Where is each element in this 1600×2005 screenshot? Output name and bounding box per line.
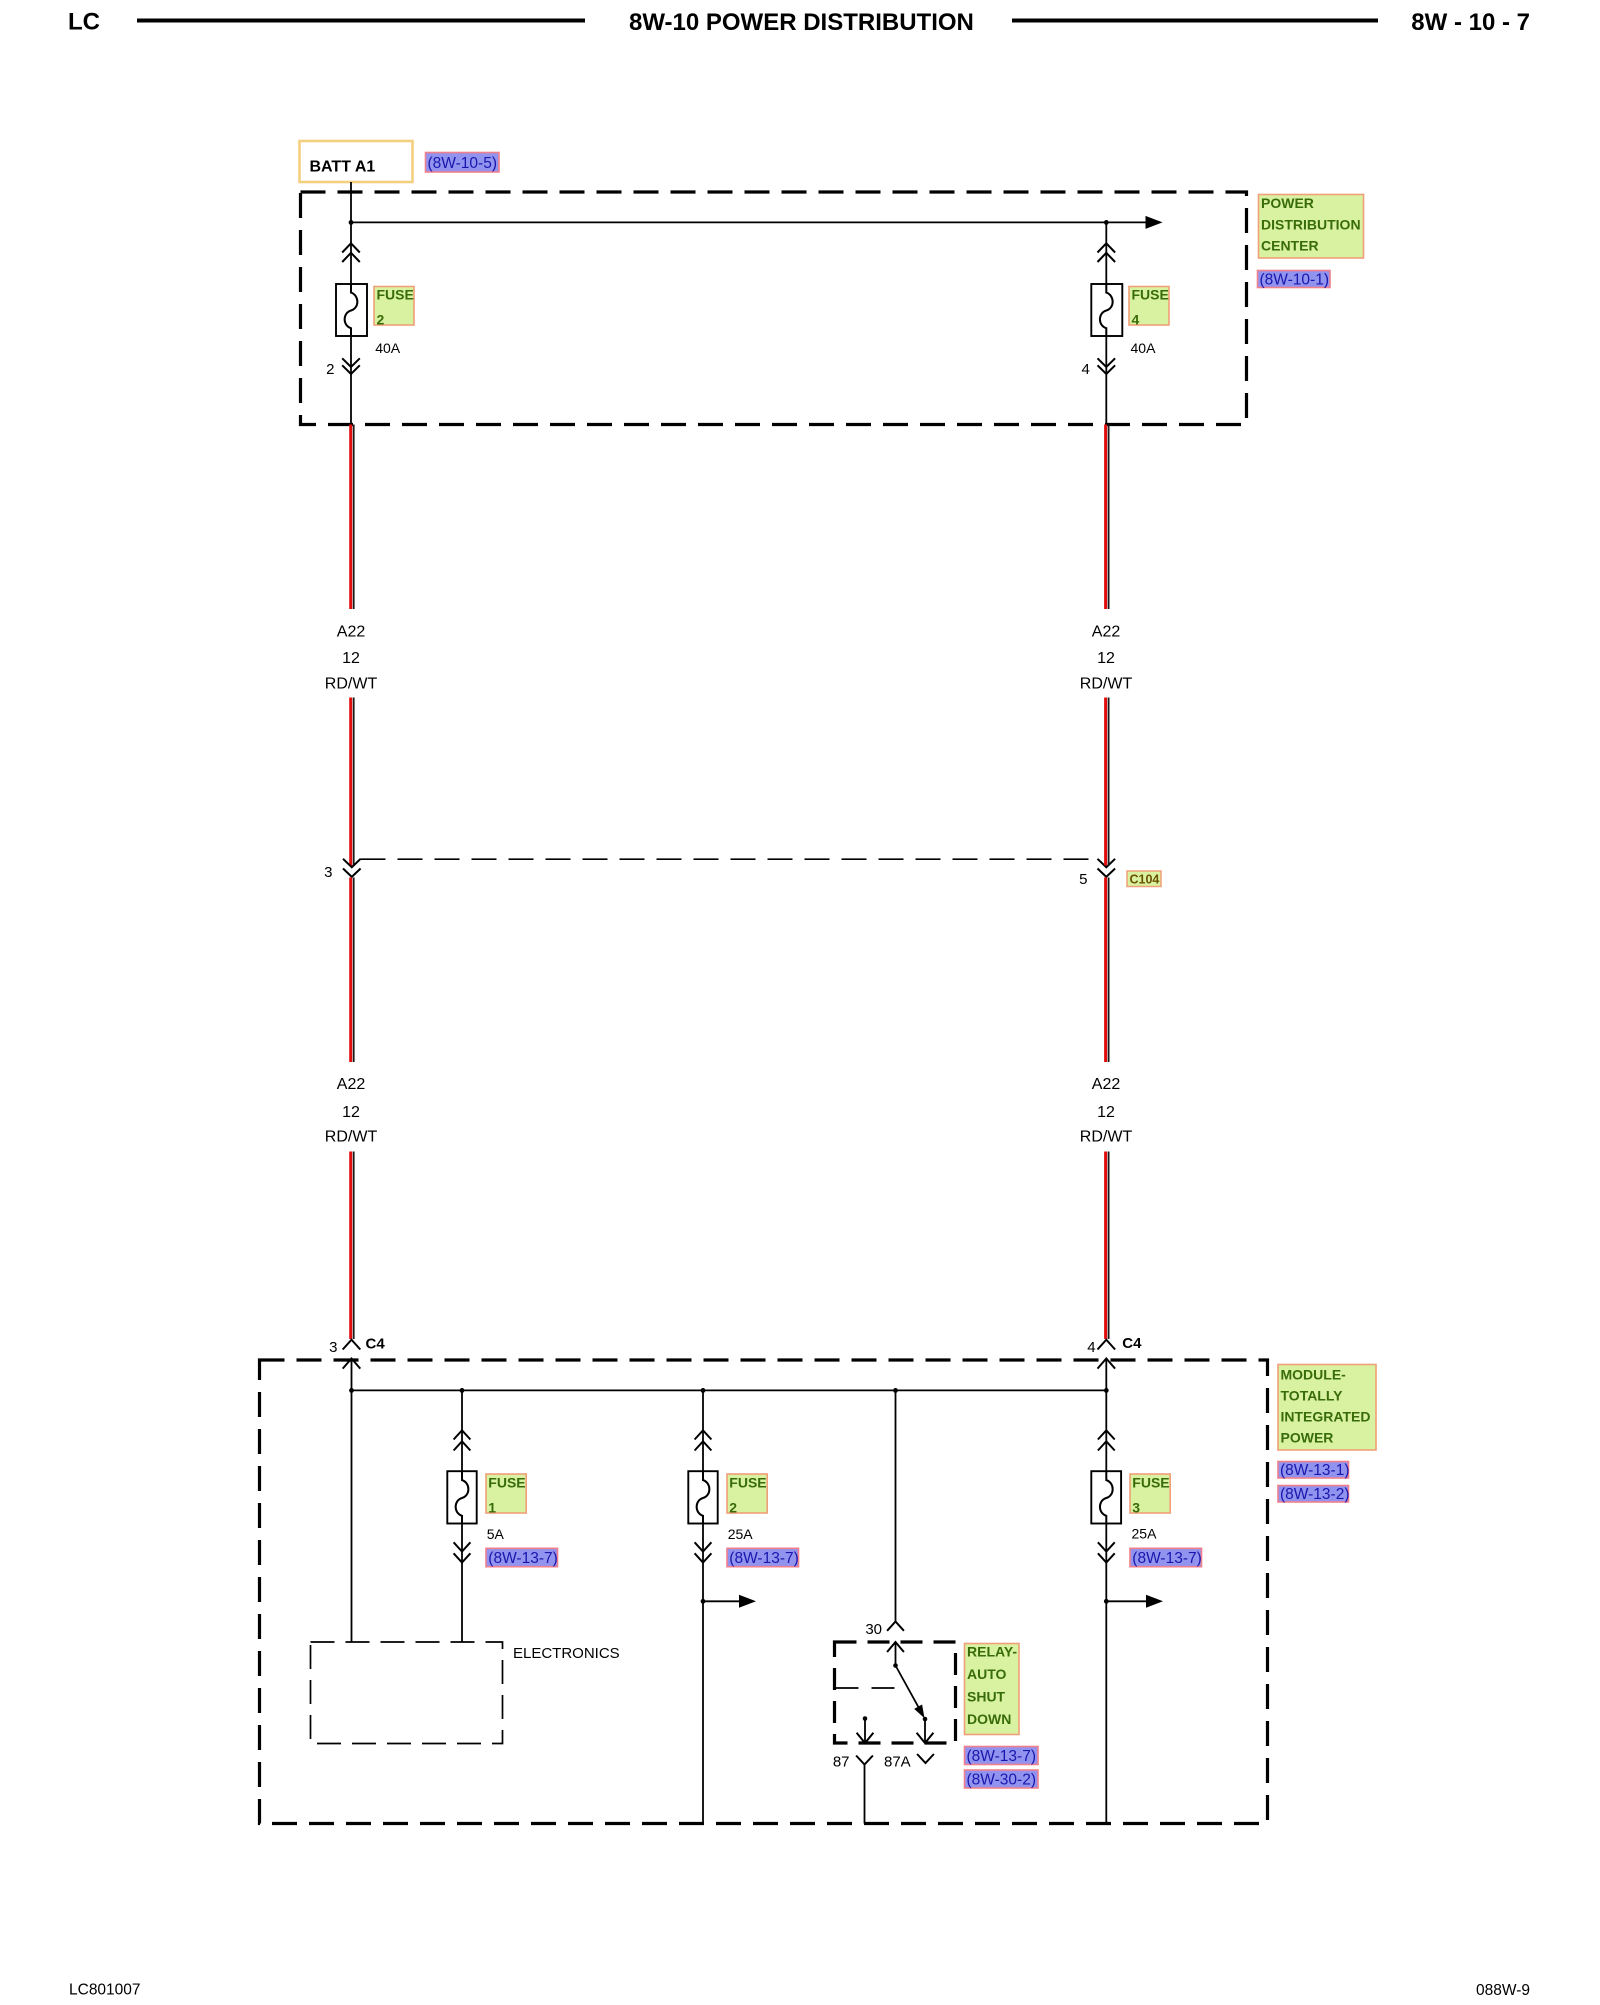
wire: horizontal bus in PDC going right <box>351 221 1146 223</box>
wire: right feed down through PDC <box>1105 222 1107 424</box>
svg-text:(8W-10-5): (8W-10-5) <box>428 155 497 172</box>
svg-text:CENTER: CENTER <box>1261 238 1319 254</box>
svg-text:LC: LC <box>68 9 100 36</box>
label FUSE 2 (TIPM) <box>727 1474 767 1516</box>
wire: 87A leg to box edge <box>924 1719 926 1743</box>
svg-text:A22: A22 <box>337 1076 366 1093</box>
wire label A22 12 RD/WT (left upper) <box>325 624 378 693</box>
wire label A22 12 RD/WT (right lower) <box>1080 1076 1133 1146</box>
svg-text:FUSE: FUSE <box>377 287 414 303</box>
svg-text:DISTRIBUTION: DISTRIBUTION <box>1261 216 1361 232</box>
svg-text:(8W-13-7): (8W-13-7) <box>1132 1550 1201 1567</box>
svg-text:RELAY-: RELAY- <box>967 1644 1017 1660</box>
svg-text:RD/WT: RD/WT <box>1080 1129 1133 1146</box>
svg-text:2: 2 <box>729 1500 737 1516</box>
svg-text:POWER: POWER <box>1261 195 1314 211</box>
svg-text:8W - 10 - 7: 8W - 10 - 7 <box>1411 9 1530 36</box>
label FUSE 3 <box>1130 1474 1170 1516</box>
connector C4 pin 4 male arrow (below edge) <box>1098 1359 1116 1369</box>
node: bus junction fuse2 <box>701 1388 706 1393</box>
relay-auto shut down dashed box <box>835 1642 956 1743</box>
fuse F4 (PDC) symbol <box>1091 284 1122 336</box>
relay name label RELAY-AUTO SHUT DOWN <box>965 1644 1020 1735</box>
connector C4 pin 3 female half (above TIPM edge) <box>343 1340 361 1350</box>
svg-text:2: 2 <box>377 312 385 328</box>
svg-text:12: 12 <box>1097 650 1115 667</box>
svg-text:A22: A22 <box>1092 624 1121 641</box>
node: bus junction fuse1 <box>460 1388 465 1393</box>
connector pin 30 female half <box>887 1622 904 1631</box>
connector chevrons above fuse 2 (TIPM) <box>695 1430 712 1450</box>
svg-text:12: 12 <box>342 650 360 667</box>
wire: fuse3 branch chevrons above <box>1098 1430 1115 1450</box>
wire A22 right: red segment 2 <box>1106 698 1109 866</box>
wire: fuse3 output arrow stub <box>1106 1600 1146 1602</box>
node: relay 87 contact <box>863 1716 868 1721</box>
fuse F2 (TIPM) symbol <box>688 1471 717 1523</box>
svg-text:C4: C4 <box>366 1336 386 1353</box>
relay internal dashed divider <box>836 1687 899 1689</box>
battery feed box BATT A1 <box>300 141 413 182</box>
reference label (8W-13-7) relay <box>965 1747 1039 1766</box>
svg-text:3: 3 <box>1132 1500 1140 1516</box>
node: fuse3 output junction <box>1104 1599 1109 1604</box>
arrow: fuse3 output continues (solid arrowhead) <box>1146 1595 1163 1608</box>
label FUSE 1 <box>486 1474 526 1516</box>
wire: 87 output down to box bottom <box>864 1765 866 1824</box>
connector chevrons above fuse 4 <box>1098 243 1116 262</box>
connector pin 87 female half below box <box>856 1756 873 1765</box>
wire: pin3 entry down to electronics <box>351 1359 353 1642</box>
svg-text:12: 12 <box>1097 1104 1115 1121</box>
svg-text:25A: 25A <box>1132 1526 1158 1542</box>
svg-text:TOTALLY: TOTALLY <box>1281 1388 1344 1404</box>
reference label (8W-13-1) <box>1278 1462 1349 1480</box>
arrow: fuse2 output continues (solid arrowhead) <box>739 1595 756 1608</box>
wire: TIPM internal bus <box>352 1389 1107 1391</box>
power distribution center dashed box <box>301 192 1247 425</box>
svg-text:DOWN: DOWN <box>967 1711 1011 1727</box>
wire A22 left: red segment 4 <box>351 1152 354 1340</box>
reference label (8W-13-7) fuse1 <box>486 1548 558 1567</box>
connector 87 exit arrow at edge <box>857 1733 874 1743</box>
reference label (8W-13-2) <box>1278 1486 1349 1504</box>
connector C4 pin 4 female half (above TIPM edge) <box>1098 1340 1116 1350</box>
svg-text:4: 4 <box>1081 361 1089 378</box>
connector chevrons below fuse 1 <box>454 1542 471 1562</box>
svg-text:(8W-30-2): (8W-30-2) <box>967 1772 1036 1789</box>
wire label A22 12 RD/WT (right upper) <box>1080 624 1133 693</box>
svg-text:(8W-13-7): (8W-13-7) <box>488 1550 557 1567</box>
svg-text:A22: A22 <box>337 624 366 641</box>
svg-text:ELECTRONICS: ELECTRONICS <box>513 1645 620 1662</box>
node: bus junction right <box>1104 1388 1109 1393</box>
connector label C104 <box>1127 871 1161 887</box>
node: bus junction left <box>349 1388 354 1393</box>
wire: fuse2 output arrow stub <box>703 1600 740 1602</box>
connector C104 left half (pin 3) chevrons <box>343 859 361 877</box>
svg-text:A22: A22 <box>1092 1076 1121 1093</box>
svg-text:87: 87 <box>833 1754 850 1771</box>
reference label (8W-10-5) <box>426 153 500 173</box>
wire: relay common leg <box>895 1642 897 1666</box>
reference label (8W-30-2) relay <box>965 1770 1039 1789</box>
node: junction at right feed <box>1104 220 1109 225</box>
connector pin 30 male arrow (inside relay) <box>887 1642 904 1652</box>
fuse F2 (PDC) symbol <box>336 284 367 336</box>
in-line connector C104 dashed line <box>361 858 1099 860</box>
svg-text:30: 30 <box>865 1621 882 1638</box>
wire: fuse1 branch <box>461 1390 463 1641</box>
relay switch blade (diagonal arrow to 87A side) <box>896 1666 925 1719</box>
reference label (8W-13-7) fuse3 <box>1130 1548 1202 1567</box>
svg-text:8W-10 POWER DISTRIBUTION: 8W-10 POWER DISTRIBUTION <box>629 9 974 36</box>
PDC name label POWER DISTRIBUTION CENTER <box>1259 195 1364 259</box>
svg-text:4: 4 <box>1132 312 1140 328</box>
wire A22 right: red segment 3 <box>1106 878 1109 1063</box>
TIPM dashed box <box>260 1360 1268 1824</box>
connector chevrons below fuse 3 <box>1098 1542 1115 1562</box>
wire A22 left: red segment 3 <box>351 878 354 1063</box>
wire: BATT A1 down into PDC (left feed) <box>350 182 352 425</box>
reference label (8W-13-7) fuse2 <box>727 1548 799 1567</box>
svg-text:AUTO: AUTO <box>967 1666 1007 1682</box>
svg-text:4: 4 <box>1087 1339 1095 1356</box>
svg-text:2: 2 <box>326 361 334 378</box>
wire A22 right: red segment 4 <box>1106 1152 1109 1340</box>
node: relay 87A contact <box>923 1717 928 1722</box>
svg-text:C4: C4 <box>1122 1335 1142 1352</box>
svg-text:C104: C104 <box>1130 873 1160 887</box>
svg-text:40A: 40A <box>1131 340 1157 356</box>
svg-text:BATT A1: BATT A1 <box>310 159 376 176</box>
wire label A22 12 RD/WT (left lower) <box>325 1076 378 1146</box>
header rule left <box>137 19 585 23</box>
TIPM name label MODULE-TOTALLY INTEGRATED POWER <box>1278 1365 1376 1451</box>
svg-text:FUSE: FUSE <box>729 1475 766 1491</box>
connector 87A exit arrow at edge <box>917 1733 934 1743</box>
svg-text:(8W-13-7): (8W-13-7) <box>729 1550 798 1567</box>
header rule right <box>1012 19 1378 23</box>
svg-text:5: 5 <box>1079 871 1087 888</box>
svg-text:3: 3 <box>324 864 332 881</box>
connector C104 right half (pin 5) chevrons <box>1098 859 1116 877</box>
connector chevrons above fuse 2 <box>342 243 360 262</box>
svg-text:MODULE-: MODULE- <box>1281 1367 1347 1383</box>
wire A22 left: red segment 2 <box>351 698 354 867</box>
label FUSE 4 <box>1129 287 1169 328</box>
connector chevrons above fuse 1 <box>454 1430 471 1450</box>
svg-text:088W-9: 088W-9 <box>1476 1982 1530 1999</box>
svg-text:(8W-13-2): (8W-13-2) <box>1280 1486 1349 1503</box>
svg-text:(8W-10-1): (8W-10-1) <box>1260 272 1329 289</box>
svg-text:5A: 5A <box>487 1526 505 1542</box>
svg-text:FUSE: FUSE <box>488 1475 525 1491</box>
svg-text:1: 1 <box>488 1500 496 1516</box>
node: fuse2 output junction <box>701 1599 706 1604</box>
svg-text:40A: 40A <box>375 340 401 356</box>
arrow: bus continues (solid arrowhead right) <box>1146 216 1163 229</box>
svg-text:POWER: POWER <box>1281 1430 1334 1446</box>
fuse F3 (TIPM) symbol <box>1091 1471 1121 1523</box>
wire: fuse2 branch <box>702 1390 704 1823</box>
svg-text:25A: 25A <box>728 1526 754 1542</box>
connector chevrons below fuse 2 (pin 2) <box>342 358 360 374</box>
connector chevrons below fuse 2 (TIPM) <box>695 1542 712 1562</box>
wire A22 right: red segment 1 <box>1106 425 1109 610</box>
svg-text:(8W-13-7): (8W-13-7) <box>967 1748 1036 1765</box>
svg-text:12: 12 <box>342 1104 360 1121</box>
svg-text:RD/WT: RD/WT <box>325 676 378 693</box>
label FUSE 2 <box>374 287 414 328</box>
svg-text:87A: 87A <box>884 1754 911 1771</box>
svg-text:RD/WT: RD/WT <box>325 1129 378 1146</box>
connector C4 pin 3 male arrow (below edge) <box>343 1359 361 1369</box>
svg-text:SHUT: SHUT <box>967 1689 1006 1705</box>
node: relay common <box>893 1663 898 1668</box>
wire: relay branch down from bus <box>895 1390 897 1621</box>
svg-text:3: 3 <box>329 1339 337 1356</box>
svg-text:FUSE: FUSE <box>1132 1475 1169 1491</box>
electronics dashed box <box>311 1642 503 1744</box>
svg-text:RD/WT: RD/WT <box>1080 676 1133 693</box>
connector chevrons below fuse 4 (pin 4) <box>1098 358 1116 374</box>
fuse F1 (TIPM) symbol <box>447 1471 476 1523</box>
wire A22 left: red segment 1 <box>351 425 354 610</box>
reference label (8W-10-1) <box>1258 271 1331 289</box>
wire: 87 leg to box edge <box>864 1719 866 1744</box>
node: bus junction relay <box>893 1388 898 1393</box>
svg-text:LC801007: LC801007 <box>69 1982 141 1999</box>
svg-text:FUSE: FUSE <box>1132 287 1169 303</box>
node: junction at left feed / horizontal bus <box>349 220 354 225</box>
wire: pin4 entry down through fuse3 branch to box bottom <box>1105 1359 1107 1824</box>
svg-text:INTEGRATED: INTEGRATED <box>1281 1409 1371 1425</box>
svg-text:(8W-13-1): (8W-13-1) <box>1280 1462 1349 1479</box>
connector pin 87A female half below box <box>917 1754 934 1763</box>
